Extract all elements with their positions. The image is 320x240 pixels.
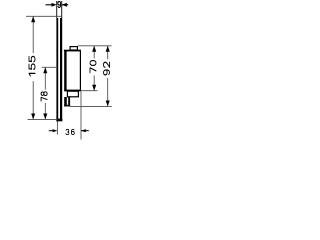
handle bottom edge (thick) — [64, 90, 81, 92]
extension line: plate top (155 dim) — [26, 15, 62, 17]
dim 70: dimension line (gap for text) — [93, 46, 95, 59]
dim 155: bottom arrow (down) — [31, 114, 35, 120]
dim 9: left arrow with tail — [46, 3, 57, 7]
dim 9: right arrow with tail — [62, 3, 68, 7]
foot / stem: left bar — [64, 97, 67, 106]
handle body — [65, 51, 81, 91]
dim 36: right arrow with tail (outside, pointing left) — [81, 129, 89, 132]
dim 92: dimension line (gap for text) — [107, 46, 109, 60]
dim 70: bottom arrow (down) — [92, 85, 96, 91]
bottom join of wall and plate — [56, 119, 62, 122]
dim 78: top arrow (up) — [43, 67, 47, 73]
extension line: plate front top (9 dim right) — [61, 1, 63, 18]
step below handle — [67, 91, 78, 97]
extension line: wall face top (9 dim left) — [56, 1, 58, 18]
plate front face (thick vertical bar) — [60, 18, 62, 119]
extension line: valve centerline (78 dim top) — [42, 66, 58, 68]
dim 92: top arrow (up) — [106, 46, 110, 52]
foot / stem: bottom join — [64, 105, 70, 107]
extension line: wall face below (36 dim left) — [56, 122, 58, 135]
dim 155: value text "155" (rotated) — [29, 56, 35, 75]
dim 9: value text "9" — [58, 1, 61, 7]
handle body top edge (thick) — [64, 50, 81, 52]
dim 92: value text "92" (rotated) — [104, 62, 110, 75]
extension line: handle front below (36 dim right) — [80, 91, 82, 139]
extension line: handle bottom (70 dim) — [81, 90, 98, 92]
dim 155: dimension line (gap for text) — [32, 16, 34, 53]
handle body left edge (extra thick) — [64, 50, 66, 91]
handle top cap (small bump) — [70, 47, 77, 50]
dim 78: bottom arrow (down) — [43, 114, 47, 120]
dim 78: dimension line (gap for text) — [44, 67, 46, 89]
wall line (thick vertical bar) — [56, 18, 58, 121]
foot / stem: right bar — [68, 97, 70, 106]
dim 78: value text "78" (rotated) — [41, 92, 47, 101]
extension line: plate bottom (155/78 dims) — [28, 118, 58, 120]
extension line: foot bottom (92 dim) — [70, 105, 112, 107]
extension line: handle top reference (70/92 dims) — [78, 45, 112, 47]
dim 36: value text "36" — [66, 129, 74, 134]
dim 92: bottom arrow (down) — [106, 101, 110, 107]
dim 70: value text "70" (rotated) — [90, 61, 96, 73]
dim 155: top arrow (up) — [31, 16, 35, 22]
dim 36: left arrow with tail (outside, pointing right) — [49, 129, 58, 132]
dim 70: top arrow (up) — [92, 46, 96, 52]
